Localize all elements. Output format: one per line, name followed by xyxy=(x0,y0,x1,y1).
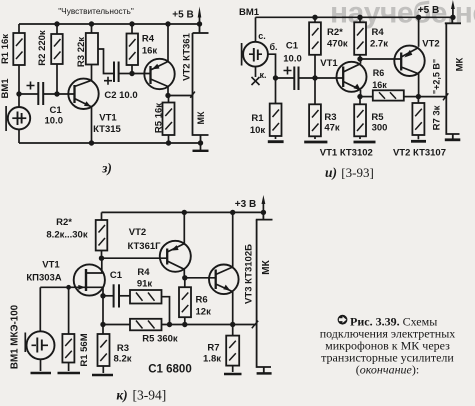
transistor VT1 KP303A jfet (к) xyxy=(74,264,105,295)
wire VT1 emitter down xyxy=(91,108,93,144)
resistor R3 47k (и) xyxy=(309,104,321,136)
watermark nauchebe.net xyxy=(330,0,475,30)
svg-text:[3-93]: [3-93] xyxy=(341,165,374,180)
wire VT1 gate (к) xyxy=(40,286,86,288)
svg-text:VT1: VT1 xyxy=(99,113,117,124)
svg-text:VT2 КТ361: VT2 КТ361 xyxy=(182,32,193,80)
wire output node to MK (и) xyxy=(418,96,446,98)
svg-text:R1: R1 xyxy=(251,113,264,124)
capacitor C1 (и) xyxy=(294,67,298,91)
wire BM1 top lead xyxy=(18,94,20,107)
ground (з) xyxy=(193,143,209,151)
wire VT3 collector to rail (к) xyxy=(232,212,234,267)
transistor VT2 KT361 (з) xyxy=(144,59,174,89)
svg-text:R5 360к: R5 360к xyxy=(142,334,178,345)
resistor R5 360k (к) horizontal xyxy=(130,319,162,331)
svg-text:VT1 КТ3102: VT1 КТ3102 xyxy=(320,148,373,159)
wire VT1 collector node to VT2 base (и) xyxy=(360,58,401,60)
svg-text:300: 300 xyxy=(372,123,388,134)
node dots (и) xyxy=(273,15,456,100)
wire C1 to VT1 base xyxy=(43,93,74,95)
label plus C2 xyxy=(104,77,112,85)
wire R1 top lead (и) xyxy=(275,78,277,104)
wire R5 bottom lead (и) xyxy=(359,136,361,139)
resistor R6 16k (и) horizontal xyxy=(373,90,404,100)
svg-text:10.0: 10.0 xyxy=(45,116,64,127)
svg-text:С1 6800: С1 6800 xyxy=(148,364,191,376)
capacitor C1 (з) xyxy=(38,82,43,105)
svg-text:R5: R5 xyxy=(371,112,384,123)
svg-text:2.7к: 2.7к xyxy=(370,39,388,50)
resistor R1 10k (и) xyxy=(270,104,282,137)
wire R2 bottom lead (и) xyxy=(314,55,316,78)
wire R1 bottom lead to input node xyxy=(18,65,20,94)
wire R5 top lead xyxy=(168,96,170,103)
wire R2 bottom lead xyxy=(56,64,58,94)
resistor R4 2.7k (и) xyxy=(354,22,366,55)
svg-text:R6: R6 xyxy=(373,68,385,78)
wire VT2 emitter to rail (и) xyxy=(418,17,420,47)
svg-text:КТ315: КТ315 xyxy=(93,124,121,135)
svg-text:91к: 91к xyxy=(137,279,153,290)
wire bottom signal line (к) xyxy=(103,324,257,326)
svg-text:VT1: VT1 xyxy=(42,260,60,271)
wire signal to C1 (и) xyxy=(276,77,295,79)
svg-text:VT2 КТ3107: VT2 КТ3107 xyxy=(393,148,446,159)
microphone BM1 MKE-100 (к) xyxy=(25,331,54,359)
wire R3 top lead (к) xyxy=(102,325,104,335)
svg-text:R2*: R2* xyxy=(56,217,72,228)
svg-text:VT2: VT2 xyxy=(422,38,439,49)
svg-text:470к: 470к xyxy=(327,39,348,50)
wire BM1 case lead (и) xyxy=(255,67,257,77)
wire VT1 collector up (и) xyxy=(360,59,362,64)
wire R4 bottom lead (и) xyxy=(359,55,361,59)
microphone BM1 (з) xyxy=(6,106,30,131)
svg-text:(окончание):: (окончание): xyxy=(356,363,419,377)
wire source node down to R3/R5 node (к) xyxy=(102,296,104,325)
wire R5 bottom lead xyxy=(168,135,170,143)
wire R4 bottom lead xyxy=(131,65,133,74)
wire R1 bottom lead (и) xyxy=(275,136,277,139)
wire +3V rail (к) xyxy=(102,211,264,213)
wire C2 to R4/VT2 base node xyxy=(119,73,132,75)
transistor VT3 KT3102B (к) xyxy=(209,265,239,295)
svg-text:МК: МК xyxy=(196,111,206,124)
MK block (з) xyxy=(193,24,209,143)
svg-text:1.8к: 1.8к xyxy=(203,354,221,365)
svg-text:"Чувствительность": "Чувствительность" xyxy=(58,6,134,16)
svg-text:VT1: VT1 xyxy=(320,58,338,69)
svg-text:к): к) xyxy=(116,388,127,403)
svg-text:8.2к...30к: 8.2к...30к xyxy=(46,230,87,241)
power +5V arrow (и) xyxy=(451,0,455,17)
resistor R2 220k xyxy=(51,34,63,64)
svg-text:+3 В: +3 В xyxy=(235,199,256,210)
wire R7 bottom lead (и) xyxy=(417,135,419,139)
microphone BM1 (и) xyxy=(242,42,268,67)
svg-text:R4: R4 xyxy=(372,27,385,38)
wire VT2 emitter to rail (к) xyxy=(183,212,185,243)
wire emitter node to R6 (и) xyxy=(360,96,373,98)
wire VT1 source (к) xyxy=(86,287,103,296)
resistor R3 22k (trimmer with wiper tap) xyxy=(86,33,98,65)
svg-text:КТ361Г: КТ361Г xyxy=(127,241,161,252)
MK block (к) xyxy=(256,212,273,373)
MK block (и) xyxy=(445,17,461,139)
wire R2 top lead (и) xyxy=(314,17,316,22)
svg-text:+5 В: +5 В xyxy=(172,10,193,21)
transistor VT1 KT315 (з) xyxy=(68,79,98,109)
power +5V arrow (з) xyxy=(198,7,202,25)
grounds (к) xyxy=(31,373,272,375)
wire R3 top lead xyxy=(91,24,93,33)
wire R3 bottom lead (и) xyxy=(314,136,316,139)
wire VT1 drain (к) xyxy=(86,258,102,273)
svg-text:C1: C1 xyxy=(286,40,299,51)
wire +5V rail (и) xyxy=(256,16,453,18)
resistor R1 16k xyxy=(13,33,24,65)
resistor R7 1.8k (к) xyxy=(226,336,239,366)
svg-text:КП303А: КП303А xyxy=(26,273,61,284)
svg-text:R2*: R2* xyxy=(327,27,343,38)
wire R4 top lead (и) xyxy=(359,17,361,22)
resistor R7 3k (и) xyxy=(412,103,424,135)
resistor R4 91k (к) horizontal xyxy=(130,290,162,304)
svg-text:R3: R3 xyxy=(324,112,336,123)
svg-text:R3 22к: R3 22к xyxy=(76,37,87,67)
svg-text:+5 В: +5 В xyxy=(418,5,439,16)
svg-text:R1 56М: R1 56М xyxy=(79,333,90,366)
wire R3 top lead (и) xyxy=(314,78,316,104)
svg-text:16к: 16к xyxy=(372,80,387,90)
node dots (к) xyxy=(66,210,266,327)
wire R3 bottom / VT1 collector xyxy=(91,65,93,81)
wire VT3 emitter down (к) xyxy=(232,292,234,325)
wire BM1 bottom lead xyxy=(18,130,20,143)
wire input node to C1 xyxy=(19,93,38,95)
MK input slash (и) xyxy=(443,93,448,100)
svg-text:МК: МК xyxy=(261,259,272,274)
svg-text:VT3 КТ3102Б: VT3 КТ3102Б xyxy=(244,244,255,304)
wire C1 to base node (и) xyxy=(298,77,343,79)
svg-text:к.: к. xyxy=(259,70,266,80)
wire R2 node to VT2 base (к) xyxy=(102,257,168,259)
wire R1 bottom lead (к) xyxy=(68,363,70,372)
resistor R1 56M (к) xyxy=(62,334,74,363)
wire R5 top lead (и) xyxy=(359,97,361,105)
svg-text:[3-94]: [3-94] xyxy=(133,388,167,403)
svg-text:и): и) xyxy=(325,165,337,180)
MK input slash (к) xyxy=(252,321,258,328)
wire R7 top lead (к) xyxy=(232,325,234,336)
svg-text:8.2к: 8.2к xyxy=(114,354,132,365)
svg-text:з): з) xyxy=(101,161,112,176)
wire gate to mic (к) xyxy=(39,287,41,331)
svg-text:R3: R3 xyxy=(117,343,129,354)
wire R2 top lead xyxy=(56,24,58,34)
wire R6 top lead (к) xyxy=(184,278,186,287)
wire BM1 output lead (и) xyxy=(268,54,276,78)
svg-text:с.: с. xyxy=(258,31,266,41)
wire R7 top lead (и) xyxy=(417,97,419,103)
MK input slash (з) xyxy=(190,92,195,98)
caption pointer icon xyxy=(338,315,348,325)
resistor R5 300 (и) xyxy=(354,104,366,136)
wire VT2 collector to output node xyxy=(167,87,169,96)
wire C1 to R4 (к) xyxy=(119,295,130,297)
svg-text:ВМ1: ВМ1 xyxy=(0,78,11,99)
svg-text:16к: 16к xyxy=(142,46,158,57)
svg-text:R4: R4 xyxy=(137,267,150,278)
grounds (и) xyxy=(268,140,461,142)
wire R3 wiper to C2 xyxy=(98,49,114,74)
wire BM1 top lead (и) xyxy=(255,17,257,42)
capacitor C1 (к) xyxy=(114,284,119,307)
svg-text:ВМ1: ВМ1 xyxy=(239,7,260,18)
wire +5V rail (з) xyxy=(19,23,200,25)
svg-text:ВМ1 МКЭ-100: ВМ1 МКЭ-100 xyxy=(10,304,21,369)
wire R4 right lead down (к) xyxy=(162,297,170,325)
wire VT2 collector down (и) xyxy=(418,74,420,97)
svg-text:10.0: 10.0 xyxy=(283,54,302,65)
svg-text:C2 10.0: C2 10.0 xyxy=(104,90,137,101)
wire VT2 collector node to VT3 base (к) xyxy=(185,277,216,279)
wire mic bottom lead (к) xyxy=(40,359,42,371)
svg-text:47к: 47к xyxy=(324,123,340,134)
wire R3 bottom lead (к) xyxy=(102,366,104,373)
wire node to VT2 base xyxy=(132,73,151,75)
wire VT1 emitter down (и) xyxy=(360,90,362,97)
svg-text:R1 16к: R1 16к xyxy=(0,34,11,64)
svg-text:12к: 12к xyxy=(196,307,212,318)
svg-text:R7: R7 xyxy=(207,343,219,354)
svg-text:R6: R6 xyxy=(196,295,208,306)
svg-text:VT2: VT2 xyxy=(129,227,146,238)
wire R1 top lead (к) xyxy=(68,287,70,334)
resistor R2* 470k (и) xyxy=(309,22,321,55)
svg-text:"+2,5 В": "+2,5 В" xyxy=(432,59,442,94)
resistor R4 16k (з) xyxy=(127,34,139,66)
capacitor C2 (з) xyxy=(114,62,119,83)
mic pin cross (и) xyxy=(252,77,260,85)
svg-text:б.: б. xyxy=(269,42,277,52)
svg-text:C1: C1 xyxy=(50,105,63,116)
svg-text:R5 16к: R5 16к xyxy=(154,103,165,133)
svg-text:C1: C1 xyxy=(110,270,123,281)
resistor R6 12k (к) xyxy=(179,287,191,317)
wire VT2 emitter to rail xyxy=(167,24,169,62)
transistor VT2 KT3107 (и) xyxy=(394,46,424,76)
wire VT2 collector down (к) xyxy=(183,269,185,278)
label plus C1 (и) xyxy=(284,67,292,75)
wire bottom ground rail (з) xyxy=(19,142,201,144)
wire R7 bottom lead (к) xyxy=(232,366,234,372)
wire R2 top lead (к) xyxy=(101,212,103,220)
wire R4 top lead xyxy=(131,24,133,34)
label plus C1 xyxy=(27,82,35,90)
resistor R3 8.2k (к) xyxy=(98,334,110,366)
wire R2 bottom lead (к) xyxy=(101,251,103,259)
svg-text:R7 3к: R7 3к xyxy=(432,105,443,130)
transistor VT2 KT361G (к) xyxy=(160,241,191,272)
svg-text:10к: 10к xyxy=(250,125,266,136)
wire R6 bottom lead (к) xyxy=(184,317,186,324)
transistor VT1 KT3102 (и) xyxy=(337,62,367,92)
svg-text:МК: МК xyxy=(455,57,466,71)
resistor R2* 8.2k-30k (к) xyxy=(96,220,108,251)
svg-text:R4: R4 xyxy=(142,34,155,45)
wire source node to C1 (к) xyxy=(103,295,113,297)
wire output node to MK xyxy=(168,95,193,97)
wire R1 top lead xyxy=(18,24,20,33)
resistor R5 16k (з) xyxy=(163,103,175,136)
power +3V arrow (к) xyxy=(262,195,266,212)
node dots (з) xyxy=(16,21,203,145)
wire R6 to output node (и) xyxy=(404,96,419,98)
svg-text:R2 220к: R2 220к xyxy=(37,30,48,66)
